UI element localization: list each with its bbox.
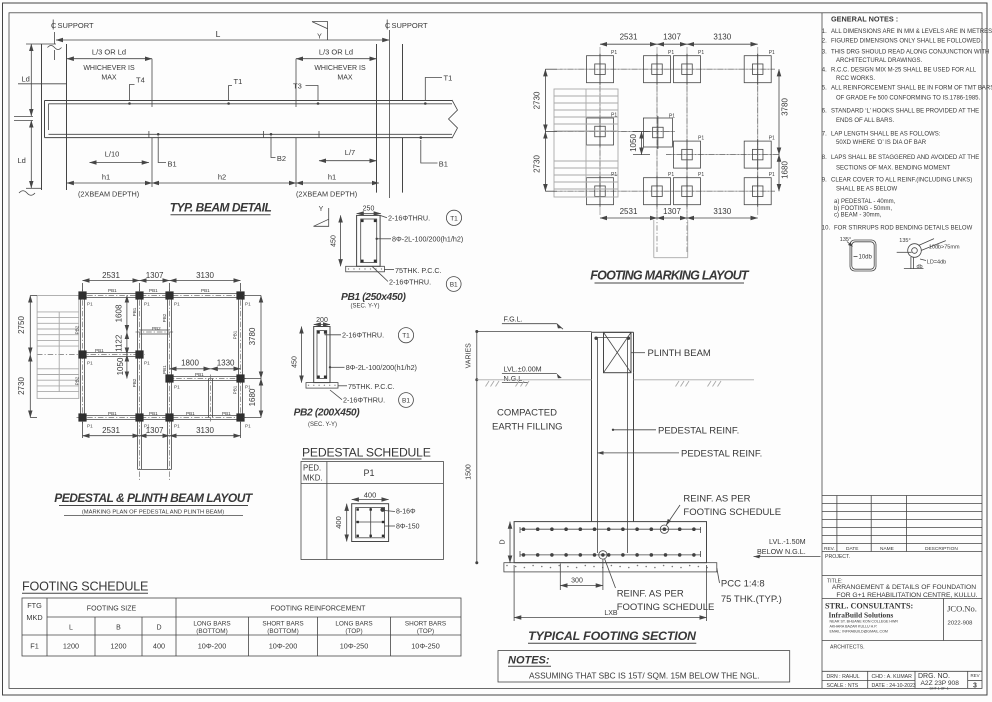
svg-text:REV.: REV.: [824, 546, 835, 552]
svg-text:ARCHITECTURAL DRAWINGS.: ARCHITECTURAL DRAWINGS.: [836, 58, 923, 64]
svg-text:10Φ-200: 10Φ-200: [198, 642, 227, 651]
svg-text:db: db: [917, 264, 923, 270]
footing section: soil hatch marks: [486, 381, 490, 387]
pedestal P1 at (82,354): [78, 350, 86, 358]
svg-text:PB2 (200X450): PB2 (200X450): [294, 408, 361, 419]
svg-text:R.C.C. DESIGN MIX M-25 SHALL B: R.C.C. DESIGN MIX M-25 SHALL BE USED FOR…: [831, 68, 977, 74]
svg-text:LD=4db: LD=4db: [927, 259, 946, 265]
svg-text:P1: P1: [669, 114, 675, 120]
svg-text:2750: 2750: [17, 316, 26, 334]
svg-text:WHICHEVER IS: WHICHEVER IS: [314, 65, 366, 72]
svg-text:SECTIONS OF MAX. BENDING MOMEN: SECTIONS OF MAX. BENDING MOMENT: [836, 166, 951, 172]
svg-text:DESCRIPTION: DESCRIPTION: [925, 546, 958, 552]
svg-text:LAP LENGTH SHALL BE AS FOLLOWS: LAP LENGTH SHALL BE AS FOLLOWS:: [831, 131, 941, 137]
footing layout: stair block: [554, 89, 618, 197]
svg-text:2-16ΦTHRU.: 2-16ΦTHRU.: [388, 214, 430, 223]
svg-text:LXB: LXB: [604, 610, 618, 617]
svg-text:WHICHEVER IS: WHICHEVER IS: [83, 65, 135, 72]
svg-text:P1: P1: [769, 136, 775, 142]
footing F1 at grid (657,69): [644, 56, 671, 83]
svg-text:6.: 6.: [822, 108, 827, 114]
svg-text:Ld: Ld: [22, 75, 30, 84]
beam detail: zone boundary lines: [151, 59, 153, 101]
footing dimension 300: [559, 564, 561, 591]
svg-text:T1: T1: [444, 74, 453, 83]
svg-text:EMAIL: INFRABUILD@GMAIL.COM: EMAIL: INFRABUILD@GMAIL.COM: [830, 630, 888, 634]
footing outline: [514, 522, 706, 563]
svg-text:PB1: PB1: [149, 288, 158, 293]
svg-text:50XD WHERE ‘D’ IS DIA OF BAR: 50XD WHERE ‘D’ IS DIA OF BAR: [836, 140, 927, 146]
svg-text:450: 450: [331, 235, 338, 247]
plinth beam right-mid horizontal PB1: [170, 376, 241, 378]
footing layout: right dimension 3780/1680: [778, 69, 780, 154]
svg-text:T1: T1: [402, 333, 410, 340]
svg-text:DRG. NO.: DRG. NO.: [918, 673, 950, 680]
svg-text:NAME: NAME: [880, 546, 894, 552]
footing section: NGL ground line: [477, 379, 592, 381]
svg-text:PB1: PB1: [201, 288, 210, 293]
svg-text:7.: 7.: [822, 131, 827, 137]
pedestal P1 at (240,418): [236, 413, 244, 421]
footing section: pedestal reinf label 2: [597, 452, 679, 454]
svg-text:2-16ΦTHRU.: 2-16ΦTHRU.: [342, 331, 384, 340]
drawing info strip: [822, 680, 915, 682]
svg-text:2-16ΦTHRU.: 2-16ΦTHRU.: [389, 278, 431, 287]
svg-text:B: B: [116, 625, 121, 632]
svg-text:B1: B1: [402, 398, 410, 405]
svg-text:P1: P1: [87, 424, 93, 429]
duct bottom closure: [138, 468, 172, 470]
svg-text:T1: T1: [234, 77, 243, 86]
svg-text:DATE: DATE: [846, 546, 858, 552]
beam detail: section marker Y top: [312, 22, 328, 40]
beam detail: L dimension line: [56, 39, 389, 41]
footing depth dimension D: [509, 522, 511, 563]
pedestal layout dimension 1800/1330: [170, 368, 211, 370]
svg-text:FTG: FTG: [27, 601, 42, 610]
beam detail: left support edges: [41, 44, 43, 190]
svg-text:200: 200: [316, 317, 328, 324]
svg-text:2022-908: 2022-908: [948, 621, 974, 627]
svg-text:THIS DRG SHOULD READ ALONG CON: THIS DRG SHOULD READ ALONG CONJUNCTION W…: [831, 49, 989, 55]
svg-text:FOR STIRRUPS ROD BENDING DETAI: FOR STIRRUPS ROD BENDING DETAILS BELOW: [834, 226, 973, 232]
dimension h1 h2 line: [67, 182, 152, 184]
svg-text:P1: P1: [245, 424, 251, 429]
svg-text:(2XBEAM DEPTH): (2XBEAM DEPTH): [296, 190, 357, 199]
footing layout: bottom dimension line: [600, 217, 657, 219]
footing F1 at grid (687,191): [674, 178, 701, 205]
svg-text:InfraBuild Solutions: InfraBuild Solutions: [829, 610, 894, 619]
svg-text:10Φ-250: 10Φ-250: [411, 642, 440, 651]
svg-text:T1: T1: [450, 215, 458, 222]
svg-text:TYP. BEAM DETAIL: TYP. BEAM DETAIL: [170, 201, 272, 215]
svg-text:SCALE : NTS: SCALE : NTS: [827, 683, 859, 689]
pedestal P1 at (170,378): [165, 374, 173, 382]
svg-text:h1: h1: [328, 173, 336, 182]
svg-text:1307: 1307: [663, 207, 681, 216]
footing rebar top row: [520, 528, 701, 530]
svg-text:1050: 1050: [116, 357, 125, 375]
svg-text:PB1: PB1: [108, 288, 117, 293]
footing layout: top dimension line: [600, 43, 657, 45]
svg-text:PCC 1:4:8: PCC 1:4:8: [721, 578, 765, 589]
pedestal layout bottom dimension: [83, 435, 140, 437]
svg-text:L/7: L/7: [345, 148, 355, 157]
svg-text:1680: 1680: [781, 161, 790, 179]
pedestal layout interior dimension 1608/1122/1050: [126, 296, 128, 333]
footing F1 at grid (687,155): [674, 141, 701, 168]
footing layout: left dimension 2730/2730: [544, 69, 546, 131]
stirrup bending detail square: [850, 240, 876, 271]
pedestal P1 at (140,296): [135, 291, 143, 299]
svg-text:3780: 3780: [781, 98, 790, 116]
svg-text:1200: 1200: [63, 642, 79, 651]
svg-text:2730: 2730: [17, 377, 26, 395]
svg-text:250: 250: [363, 206, 375, 213]
svg-text:135°: 135°: [840, 237, 851, 243]
svg-text:9.: 9.: [822, 178, 827, 184]
beam detail: right support edges: [376, 44, 378, 193]
svg-text:3130: 3130: [713, 33, 731, 42]
svg-text:1200: 1200: [110, 642, 126, 651]
svg-text:FOR G+1 REHABILITATION CENTRE,: FOR G+1 REHABILITATION CENTRE, KULLU.: [836, 592, 977, 599]
pedestal P1 at (170,418): [165, 413, 173, 421]
dimension Ld lower left: [30, 121, 32, 189]
svg-text:1.: 1.: [822, 29, 827, 35]
svg-text:1307: 1307: [663, 33, 681, 42]
svg-text:8-16Φ: 8-16Φ: [396, 508, 416, 515]
svg-text:B1: B1: [168, 160, 177, 169]
svg-text:(BOTTOM): (BOTTOM): [196, 628, 227, 635]
svg-text:C: C: [385, 21, 391, 30]
svg-text:1330: 1330: [217, 359, 235, 368]
footing F1 at grid (758,69): [744, 56, 771, 83]
notes box frame: [498, 651, 790, 682]
svg-text:VARIES: VARIES: [466, 343, 473, 368]
svg-text:P1: P1: [698, 172, 704, 178]
pedestal P1 at (170,296): [165, 291, 173, 299]
svg-text:2531: 2531: [620, 207, 638, 216]
svg-text:PROJECT.: PROJECT.: [825, 554, 850, 560]
svg-text:FOOTING SCHEDULE: FOOTING SCHEDULE: [617, 602, 715, 613]
plinth beam vertical col D: [238, 296, 240, 418]
footing layout: centerlines: [557, 68, 775, 70]
svg-text:NOTES:: NOTES:: [508, 655, 550, 667]
footing section: plinth beam label: [631, 352, 645, 354]
svg-text:L: L: [216, 29, 221, 39]
svg-text:AKHARA BAZAR KULLU H.P.: AKHARA BAZAR KULLU H.P.: [830, 625, 878, 629]
svg-text:PB2: PB2: [162, 313, 167, 322]
svg-text:DATE : 24-10-2023: DATE : 24-10-2023: [872, 683, 916, 689]
svg-text:P1: P1: [174, 302, 180, 307]
svg-text:PB2: PB2: [75, 376, 80, 385]
svg-text:NEAR ST. BHUANE KON COLLEGE HW: NEAR ST. BHUANE KON COLLEGE HWR: [830, 620, 899, 624]
footing F1 at grid (687,69): [674, 56, 701, 83]
svg-text:P1: P1: [245, 302, 251, 307]
svg-text:2730: 2730: [533, 155, 542, 173]
svg-text:PB2: PB2: [132, 378, 137, 387]
svg-text:75THK. P.C.C.: 75THK. P.C.C.: [348, 382, 395, 391]
footing section: pedestal reinf label 1: [613, 429, 656, 431]
pedestal P1 at (82,418): [78, 413, 86, 421]
beam detail: L/3 zone dimension right: [296, 58, 377, 60]
svg-text:FIGURED DIMENSIONS ONLY SHALL: FIGURED DIMENSIONS ONLY SHALL BE FOLLOWE…: [831, 38, 983, 44]
svg-text:P1: P1: [769, 50, 775, 56]
svg-text:3.: 3.: [822, 49, 827, 55]
svg-text:PB1: PB1: [222, 411, 231, 416]
footing layout: lower duct extension: [653, 220, 655, 258]
svg-text:GENERAL NOTES :: GENERAL NOTES :: [831, 14, 898, 23]
svg-text:ARRANGEMENT & DETAILS OF FOUND: ARRANGEMENT & DETAILS OF FOUNDATION: [832, 584, 976, 591]
svg-text:10.: 10.: [822, 226, 831, 232]
svg-text:h1: h1: [102, 173, 110, 182]
pedestal P1 at (240,296): [236, 291, 244, 299]
svg-text:P1: P1: [698, 136, 704, 142]
break symbol on Ld line: [14, 116, 33, 118]
svg-text:PEDESTAL REINF.: PEDESTAL REINF.: [658, 425, 739, 436]
svg-text:P1: P1: [698, 50, 704, 56]
svg-text:PB1: PB1: [132, 307, 137, 316]
svg-text:8Φ-2L-100/200(h1/h2): 8Φ-2L-100/200(h1/h2): [346, 363, 417, 372]
svg-text:(BOTTOM): (BOTTOM): [267, 628, 298, 635]
footing section: left dimension line: [476, 332, 478, 380]
svg-text:10db: 10db: [859, 255, 873, 261]
svg-text:1800: 1800: [181, 359, 199, 368]
beam detail: right support centerline: [388, 30, 390, 198]
footing section: FGL level line: [477, 331, 592, 333]
svg-text:SUPPORT: SUPPORT: [58, 21, 95, 30]
svg-text:B2: B2: [277, 154, 286, 163]
svg-text:D: D: [156, 625, 161, 632]
plinth beam vertical col B extended down: [137, 296, 139, 470]
svg-text:P1: P1: [87, 361, 93, 366]
svg-text:DRN : RAHUL: DRN : RAHUL: [827, 674, 860, 680]
svg-text:LVL.±0.00M: LVL.±0.00M: [504, 365, 542, 374]
svg-text:P1: P1: [144, 361, 150, 366]
svg-text:FOOTING REINFORCEMENT: FOOTING REINFORCEMENT: [271, 606, 367, 613]
beam bottom reinforcement bar: [49, 133, 453, 135]
svg-text:2531: 2531: [620, 33, 638, 42]
svg-text:Y: Y: [317, 34, 322, 41]
footing F1 large at row2 col2: [643, 118, 672, 147]
svg-text:BELOW N.G.L.: BELOW N.G.L.: [757, 547, 806, 556]
svg-text:FOOTING SIZE: FOOTING SIZE: [87, 606, 137, 613]
svg-text:PEDESTAL REINF.: PEDESTAL REINF.: [681, 448, 762, 459]
svg-text:2-16ΦTHRU.: 2-16ΦTHRU.: [343, 396, 385, 405]
right panel divider: [821, 13, 823, 689]
PB2 PCC strip: [306, 383, 338, 389]
svg-text:1608: 1608: [115, 304, 124, 322]
svg-text:MAX: MAX: [337, 75, 353, 82]
svg-text:PB1: PB1: [233, 385, 238, 394]
footing F1 at grid (600,132): [587, 118, 614, 145]
PB1 stirrup: [361, 219, 377, 263]
svg-text:SUPPORT: SUPPORT: [392, 21, 429, 30]
svg-text:ALL REINFORCEMENT SHALL BE IN: ALL REINFORCEMENT SHALL BE IN FORM OF TM…: [831, 86, 992, 92]
beam detail: left support centerline with break: [53, 32, 55, 44]
svg-text:(TOP): (TOP): [417, 628, 434, 635]
footing F1 at grid (657,191): [644, 178, 671, 205]
svg-text:P1: P1: [611, 50, 617, 56]
svg-text:3130: 3130: [196, 271, 214, 280]
svg-text:SHT 1 OF 1: SHT 1 OF 1: [930, 687, 949, 691]
svg-text:(MARKING PLAN OF PEDESTAL AND: (MARKING PLAN OF PEDESTAL AND PLINTH BEA…: [82, 510, 224, 516]
svg-text:REINF. AS PER: REINF. AS PER: [617, 589, 684, 600]
plinth beam vertical col A: [80, 296, 82, 418]
svg-text:FOOTING SCHEDULE: FOOTING SCHEDULE: [683, 507, 781, 518]
svg-text:L/3 OR Ld: L/3 OR Ld: [92, 48, 126, 57]
svg-text:450: 450: [292, 356, 299, 368]
footing section: pedestal column outline: [591, 332, 593, 521]
svg-text:(SEC. Y-Y): (SEC. Y-Y): [308, 422, 337, 428]
svg-text:T4: T4: [136, 76, 145, 85]
svg-text:L: L: [69, 625, 73, 632]
svg-text:10Φ-200: 10Φ-200: [269, 642, 298, 651]
svg-text:2531: 2531: [102, 426, 120, 435]
footing F1 at grid (758,191): [744, 178, 771, 205]
footing dimension LXB: [513, 565, 515, 621]
revision table: [822, 495, 982, 497]
pedestal layout left dimension 2750/2730: [29, 296, 31, 355]
svg-text:75 THK.(TYP.): 75 THK.(TYP.): [721, 594, 782, 605]
svg-text:B1: B1: [439, 160, 448, 169]
beam top reinforcement bar: [49, 103, 453, 105]
pedestal P1 at (82,296): [78, 291, 86, 299]
svg-text:ENDS OF ALL BARS.: ENDS OF ALL BARS.: [836, 118, 894, 124]
pedestal layout right dimension 3780/1680: [260, 296, 262, 379]
svg-text:135°: 135°: [899, 238, 910, 244]
footing section: plinth beam cross section: [604, 332, 632, 372]
plinth beam grid horizontal top PB1: [83, 293, 241, 295]
svg-text:SHALL BE AS BELOW: SHALL BE AS BELOW: [836, 187, 897, 193]
svg-text:300: 300: [571, 578, 583, 585]
svg-text:8Φ-2L-100/200(h1/h2): 8Φ-2L-100/200(h1/h2): [392, 235, 463, 244]
svg-text:P1: P1: [87, 302, 93, 307]
footing rebar bottom row: [520, 554, 701, 556]
svg-text:10db>75mm: 10db>75mm: [929, 244, 960, 250]
beam detail: L/3 zone dimension left: [67, 58, 152, 60]
svg-text:F1: F1: [30, 642, 39, 651]
svg-text:PB1: PB1: [195, 372, 204, 377]
svg-text:P1: P1: [144, 302, 150, 307]
svg-text:P1: P1: [174, 424, 180, 429]
svg-text:L/10: L/10: [105, 150, 120, 159]
svg-text:C: C: [51, 21, 57, 30]
svg-text:(2XBEAM DEPTH): (2XBEAM DEPTH): [78, 190, 139, 199]
svg-text:a) PEDESTAL - 40mm,: a) PEDESTAL - 40mm,: [834, 199, 896, 205]
svg-text:8Φ-150: 8Φ-150: [396, 524, 420, 531]
PB1 PCC strip: [346, 266, 385, 272]
svg-text:PB1: PB1: [162, 365, 167, 374]
svg-text:FOOTING MARKING LAYOUT: FOOTING MARKING LAYOUT: [590, 269, 750, 283]
svg-text:P1: P1: [174, 385, 180, 390]
svg-text:OF GRADE Fe 500 CONFORMING TO: OF GRADE Fe 500 CONFORMING TO IS.1786-19…: [836, 95, 980, 101]
footing F1 at grid (600,191): [587, 178, 614, 205]
svg-text:5.: 5.: [822, 86, 827, 92]
pedestal P1 at (140,418): [135, 413, 143, 421]
pedestal P1 at (140,354): [135, 350, 143, 358]
svg-text:SHORT BARS: SHORT BARS: [405, 621, 446, 628]
svg-text:P1: P1: [363, 468, 374, 478]
svg-text:10Φ-250: 10Φ-250: [340, 642, 369, 651]
svg-text:PB1 (250x450): PB1 (250x450): [341, 292, 407, 303]
svg-text:2531: 2531: [102, 271, 120, 280]
svg-text:MAX: MAX: [101, 75, 117, 82]
svg-text:MKD.: MKD.: [303, 473, 323, 482]
plinth beam PB2 horizontal: [140, 329, 170, 331]
PB1 beam section outline: [357, 215, 381, 266]
svg-text:ASSUMING THAT SBC IS 15T/ SQM.: ASSUMING THAT SBC IS 15T/ SQM. 15M BELOW…: [529, 671, 759, 681]
beam body outline: [45, 100, 453, 102]
svg-text:1680: 1680: [248, 388, 257, 406]
svg-text:(TOP): (TOP): [345, 628, 362, 635]
svg-text:400: 400: [334, 516, 343, 529]
plinth beam grid horizontal bottom PB1: [83, 415, 241, 417]
svg-text:RCC WORKS.: RCC WORKS.: [836, 76, 875, 82]
plinth beam mid horizontal left PB1: [83, 352, 140, 354]
svg-text:T3: T3: [293, 82, 302, 91]
svg-text:b) FOOTING - 50mm,: b) FOOTING - 50mm,: [834, 206, 892, 212]
svg-text:3: 3: [973, 683, 977, 690]
svg-text:FOOTING SCHEDULE: FOOTING SCHEDULE: [22, 580, 148, 594]
PB2 beam section outline: [314, 327, 330, 383]
svg-text:PB2: PB2: [75, 325, 80, 334]
svg-text:PEDESTAL SCHEDULE: PEDESTAL SCHEDULE: [302, 445, 431, 459]
svg-text:3130: 3130: [713, 207, 731, 216]
svg-text:1500: 1500: [466, 464, 473, 480]
svg-text:Y: Y: [319, 206, 324, 213]
svg-text:N.G.L: N.G.L: [504, 374, 523, 383]
svg-text:c) BEAM - 30mm,: c) BEAM - 30mm,: [834, 213, 882, 219]
svg-text:P1: P1: [769, 172, 775, 178]
pedestal layout top dimension: [83, 280, 140, 282]
svg-text:COMPACTED: COMPACTED: [497, 408, 557, 419]
footing F1 at grid (758,155): [744, 141, 771, 168]
svg-text:PB2: PB2: [152, 326, 161, 331]
svg-text:LVL.-1.50M: LVL.-1.50M: [769, 537, 806, 546]
footing schedule table frame: [22, 598, 461, 656]
svg-text:ARCHITECTS.: ARCHITECTS.: [830, 644, 865, 650]
svg-text:1050: 1050: [629, 134, 638, 152]
PB2 stirrup: [317, 331, 327, 379]
svg-text:F.G.L.: F.G.L.: [504, 315, 523, 324]
svg-text:h2: h2: [218, 173, 226, 182]
svg-text:PLINTH BEAM: PLINTH BEAM: [648, 348, 711, 359]
svg-text:3130: 3130: [196, 426, 214, 435]
svg-text:Ld: Ld: [18, 156, 26, 165]
svg-text:REINF. AS PER: REINF. AS PER: [683, 494, 750, 505]
pedestal P1 at (240,378): [236, 374, 244, 382]
svg-text:PB1: PB1: [186, 411, 195, 416]
footing F1 at grid (600,69): [587, 56, 614, 83]
pedestal P1 section drawing: [352, 504, 389, 542]
svg-text:4.: 4.: [822, 68, 827, 74]
svg-text:400: 400: [153, 642, 165, 651]
svg-text:LONG BARS: LONG BARS: [335, 621, 372, 628]
svg-text:STANDARD ‘L’ HOOKS SHALL BE PR: STANDARD ‘L’ HOOKS SHALL BE PROVIDED AT …: [831, 108, 979, 114]
svg-text:TYPICAL FOOTING SECTION: TYPICAL FOOTING SECTION: [528, 629, 697, 643]
plinth beam vertical stub at 1800 split: [208, 379, 210, 418]
svg-text:3780: 3780: [248, 327, 257, 345]
svg-text:MKD: MKD: [26, 613, 42, 622]
svg-text:PB1: PB1: [95, 348, 104, 353]
svg-text:1122: 1122: [115, 334, 124, 352]
svg-text:D: D: [500, 539, 507, 544]
svg-text:EARTH FILLING: EARTH FILLING: [492, 422, 563, 433]
svg-text:PB1: PB1: [233, 330, 238, 339]
pedestal schedule table frame: [301, 462, 443, 560]
svg-text:LONG BARS: LONG BARS: [193, 621, 230, 628]
